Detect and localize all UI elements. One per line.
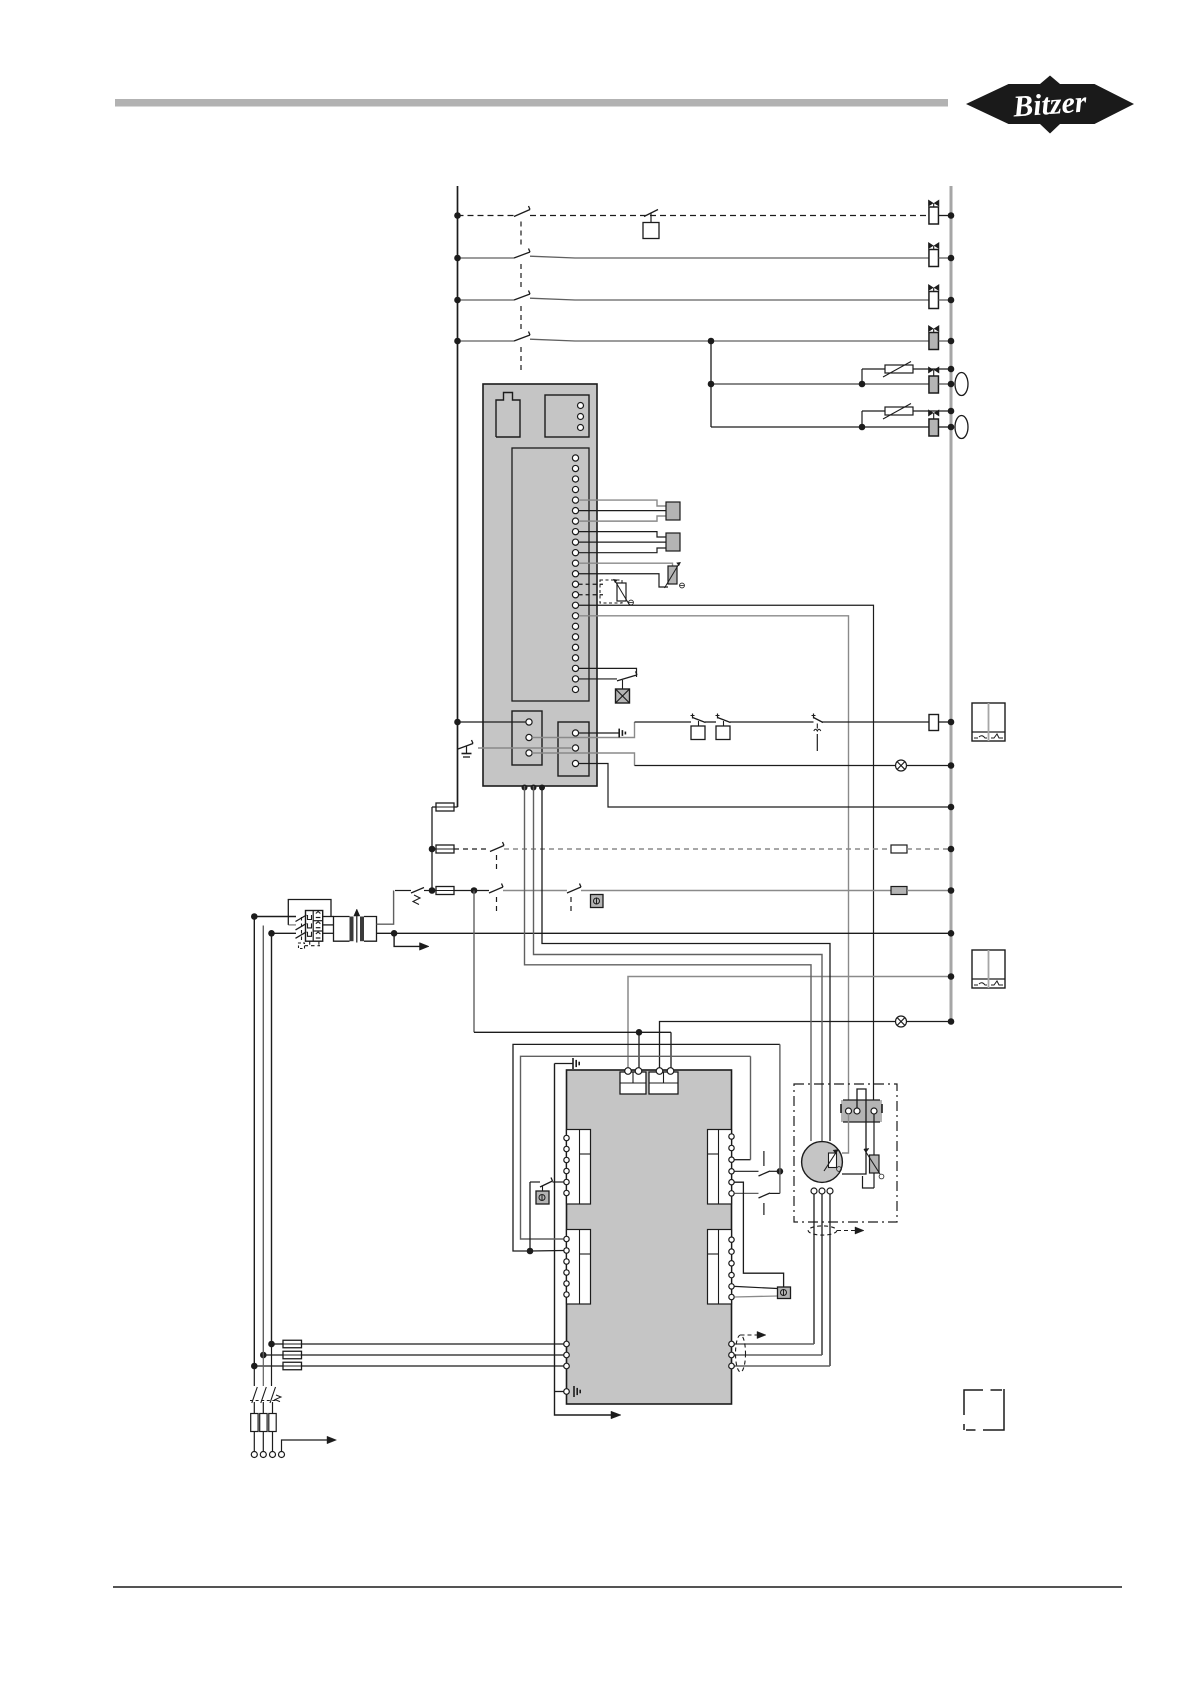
junction row722/rail bbox=[948, 719, 955, 726]
solenoid valve Y4 bbox=[929, 333, 939, 350]
module U1 relay box pins bbox=[578, 403, 584, 409]
inverter output pins bbox=[729, 1341, 735, 1347]
circuit breaker Q1 body bbox=[306, 911, 323, 942]
Bitzer logo bbox=[966, 76, 1134, 134]
module U1 output terminal box right bbox=[558, 722, 589, 776]
junction row890/rail bbox=[948, 887, 955, 894]
mains fuse F13 bbox=[283, 1362, 302, 1370]
wire pin9 to connector X2 bbox=[579, 541, 666, 543]
varistor R3 bbox=[885, 365, 913, 373]
switch S4 bbox=[514, 335, 530, 341]
varistor branch row B bbox=[861, 411, 863, 427]
wire terminal 14 to relay contact net bbox=[532, 722, 634, 738]
disconnect fuse f1 bbox=[251, 1414, 258, 1432]
wire pin14 dashed bbox=[579, 594, 603, 596]
wire row1 dashed bbox=[458, 215, 515, 217]
breaker thermal elements bbox=[316, 912, 321, 914]
inverter PE internal symbol bbox=[573, 1386, 575, 1397]
wire L1 to breaker bbox=[254, 916, 296, 918]
inverter terminal box B bbox=[567, 1230, 591, 1305]
fuse F8 bbox=[436, 845, 454, 853]
secondary tap to control row bbox=[377, 891, 394, 925]
junction row765/rail bbox=[948, 762, 955, 769]
junction L1 fuse bbox=[251, 1363, 258, 1370]
wire pin16 to motor terminal strip bbox=[579, 616, 849, 1108]
junction row2/rail bbox=[948, 255, 955, 262]
switch S3 bbox=[514, 294, 530, 300]
module pin24 wire to motor phase V bbox=[534, 786, 823, 1141]
wire row2 bbox=[458, 257, 515, 259]
supply vertical L1 bbox=[253, 917, 255, 1367]
junction row1022/rail bbox=[948, 1018, 955, 1025]
switch S9 row890 bbox=[489, 887, 503, 893]
secondary neutral wire row 933 bbox=[377, 932, 949, 934]
wire fuse F9 to inverter supply bbox=[473, 891, 475, 1033]
disconnect fuse f3 bbox=[269, 1414, 276, 1432]
wire between pressure switches bbox=[705, 721, 716, 723]
wire terminal M to lamp net bbox=[532, 753, 634, 766]
motor M1 circle bbox=[802, 1142, 843, 1183]
supply vertical L2 bbox=[262, 926, 264, 1356]
wire row4 bbox=[458, 340, 515, 342]
switch S2 bbox=[514, 252, 530, 258]
module U1 terminal field bbox=[512, 448, 589, 701]
module U1 relay box bbox=[545, 395, 589, 437]
wire to contact bbox=[730, 721, 814, 723]
module pin25 wire to motor phase U bbox=[525, 786, 812, 1141]
motor coil ellipse row A bbox=[955, 373, 968, 396]
contact linkage dashes bbox=[763, 1151, 765, 1166]
signal lamp H2 bbox=[896, 1016, 907, 1027]
breaker linkage bbox=[301, 917, 303, 943]
wire terminal B1 down to row 807 bbox=[579, 764, 948, 808]
inverter supply terminals 2 bbox=[656, 1068, 663, 1075]
inverter terminal box C bbox=[708, 1130, 732, 1205]
wire pin11 to sensor R5 bbox=[579, 563, 673, 566]
wire row 890 to oil switch bbox=[503, 890, 567, 892]
module bottom pins bbox=[522, 785, 528, 791]
contact K3 at C6 bbox=[735, 1192, 759, 1194]
inverter terminal box B pins bbox=[564, 1236, 569, 1241]
oil level monitor box B2 bbox=[972, 950, 1005, 988]
thermal cutout F10 bbox=[411, 888, 424, 894]
supply junction L2 bbox=[268, 930, 275, 937]
right neutral rail node N bbox=[950, 186, 953, 1022]
inverter terminal box D pins bbox=[729, 1237, 734, 1242]
inverter input pins bbox=[564, 1341, 570, 1347]
wire row A (y=384) bbox=[711, 383, 929, 385]
varistor branch row A bbox=[861, 369, 863, 384]
wire pin6 to connector X1 bbox=[579, 510, 666, 512]
breaker output wires bbox=[323, 916, 334, 918]
pressure switch F1 on row1 bbox=[644, 210, 658, 217]
wire row 849 dashed bbox=[454, 848, 490, 850]
output cable marker ellipse bbox=[736, 1335, 746, 1372]
LP switch F5 bbox=[717, 714, 719, 719]
inverter terminal box C pins bbox=[729, 1134, 734, 1139]
wire row 849 dashed to rail bbox=[504, 848, 891, 850]
disconnect thermal trip bbox=[275, 1395, 281, 1402]
main disconnect Q2 blades bbox=[253, 1366, 255, 1386]
inverter PE pin bbox=[564, 1389, 570, 1395]
discharge sensor R7 bbox=[873, 1114, 875, 1155]
wire pin12 to sensor R5 bbox=[579, 574, 668, 587]
wire A5 safety contact bbox=[553, 1181, 564, 1183]
alarm box H3 bbox=[616, 689, 630, 703]
relay coil K1 bbox=[929, 715, 939, 731]
svg-text:Bitzer: Bitzer bbox=[1011, 85, 1088, 123]
fuse F9 bbox=[436, 887, 454, 895]
footer rule bbox=[113, 1586, 1122, 1588]
solenoid valve Y2 bbox=[929, 250, 939, 267]
wire inverter control loop lower bbox=[521, 1056, 751, 1239]
wires fuses to inverter bbox=[302, 1343, 564, 1345]
wire to relay coil K1 bbox=[822, 721, 930, 723]
protection module U1 body bbox=[483, 384, 597, 786]
breaker linkage to columns bbox=[305, 945, 321, 947]
transformer T1 secondary frame bbox=[364, 917, 377, 942]
wires to supply terminals bbox=[253, 1402, 255, 1414]
reset switch S5 bbox=[617, 675, 637, 681]
wire C3 to B1 link bbox=[735, 1159, 751, 1161]
inverter PE top symbol bbox=[555, 1063, 573, 1065]
switch S8 row849 bbox=[490, 846, 504, 852]
module PE terminal wire bbox=[579, 732, 619, 734]
junction row849/rail bbox=[948, 846, 955, 853]
wire row3 bbox=[458, 299, 515, 301]
oil sensor box B3 bbox=[591, 895, 604, 908]
module PE earth symbol bbox=[618, 729, 620, 738]
breaker trip box bbox=[299, 943, 305, 949]
motor phase terminals bbox=[811, 1188, 817, 1194]
junction row3/rail bbox=[948, 297, 955, 304]
transformer core arrow bbox=[356, 916, 358, 943]
terminal marker row849 bbox=[891, 845, 907, 853]
accessory dashed square bbox=[964, 1389, 1004, 1430]
motor winding jumper bbox=[842, 1089, 866, 1174]
junction L2 fuse bbox=[260, 1352, 267, 1359]
connector X1 bbox=[666, 502, 680, 520]
supply terminals L1 L2 L3 PE bbox=[251, 1452, 257, 1458]
left control rail node L bbox=[457, 186, 459, 807]
motor internal sensor bbox=[829, 1153, 837, 1168]
solenoid valve Y5 (CR) bbox=[929, 376, 939, 393]
wire branch from row4 to valve rows bbox=[710, 341, 712, 427]
wire transformer to fuse F9 bbox=[395, 890, 411, 892]
inverter terminal box A bbox=[567, 1130, 591, 1205]
wire terminal 12 to test switch bbox=[478, 747, 572, 749]
motor terminal circles bbox=[846, 1108, 852, 1114]
header rule bar bbox=[115, 99, 948, 107]
junctions row A / rail bbox=[948, 366, 955, 373]
inverter supply terminal block 1 bbox=[620, 1072, 646, 1094]
fuse F7 bbox=[436, 803, 454, 811]
wire PE pin to PE bus bbox=[555, 1391, 564, 1393]
breaker blades bbox=[296, 915, 307, 922]
oil level monitor box B1 bbox=[972, 703, 1005, 741]
transformer T1 secondary winding bbox=[360, 917, 364, 942]
wire inverter control loop upper bbox=[513, 1044, 780, 1251]
motor coil ellipse row B bbox=[955, 416, 968, 439]
wire A5 contact to B2 bbox=[529, 1182, 531, 1251]
junction row933/rail bbox=[948, 930, 955, 937]
inverter supply terminal block 2 bbox=[649, 1072, 678, 1094]
solenoid valve Y1 bbox=[929, 207, 939, 224]
motor cable arrow bbox=[837, 1230, 855, 1232]
wire L-rail to terminal 11 bbox=[458, 721, 527, 723]
wire D6 to sensor B5 bbox=[735, 1296, 778, 1297]
wire pin22 to reset switch bbox=[579, 678, 617, 680]
motor terminal strip bbox=[841, 1100, 882, 1122]
motor phase wires to inverter bbox=[813, 1194, 815, 1344]
manual contact S7 bbox=[813, 714, 815, 719]
wire row 976 rail feed bbox=[628, 977, 948, 1071]
wire inverter T3 to lamp H2 bbox=[660, 1022, 896, 1071]
junction secondary neutral bbox=[391, 930, 398, 937]
test switch S6 with earth bbox=[458, 744, 473, 750]
wire row B (y=427) bbox=[711, 426, 929, 428]
wire row 765 signal lamp bbox=[635, 765, 896, 767]
wire inverter supply T2/T4 bbox=[474, 1031, 671, 1033]
motor feed from strip 1 bbox=[842, 1114, 849, 1153]
wire row 722 safety chain bbox=[635, 721, 692, 723]
oil level switch S10 bbox=[567, 887, 581, 893]
wire pin8 to connector X2 bbox=[579, 532, 666, 537]
solenoid valve Y3 bbox=[929, 292, 939, 309]
wire pin10 to connector X2 bbox=[579, 548, 666, 553]
module U1 power plug outline bbox=[496, 393, 520, 438]
wire pin7 to connector X1 bbox=[579, 516, 666, 521]
junction row4/rail bbox=[948, 338, 955, 345]
wire row 890 to rail bbox=[581, 890, 891, 892]
switch S1 bbox=[514, 210, 530, 217]
mains fuse F12 bbox=[283, 1351, 302, 1359]
connector X2 bbox=[666, 533, 680, 551]
wire D5 to sensor B5 bbox=[735, 1286, 778, 1288]
disconnect linkage bbox=[250, 1400, 276, 1402]
wire lamp H2 to rail end bbox=[907, 1021, 952, 1023]
wire pin13 dashed bbox=[579, 583, 603, 585]
PE supply arrow bbox=[282, 1440, 328, 1452]
contact K2 at C4 bbox=[735, 1170, 759, 1172]
supply vertical L3 bbox=[271, 933, 273, 1344]
wire contact bus bbox=[779, 1044, 781, 1193]
wire C5 to sensor B5 bbox=[735, 1182, 784, 1287]
mains fuse F11 bbox=[283, 1340, 302, 1348]
junction L3 fuse bbox=[268, 1341, 275, 1348]
compressor boundary dash-dot box bbox=[794, 1084, 897, 1222]
motor cable marker ellipse bbox=[808, 1226, 837, 1235]
vertical fuse feeder bbox=[431, 807, 433, 891]
transformer T1 primary frame bbox=[334, 917, 350, 942]
wire L2 to breaker bbox=[272, 932, 297, 934]
wire pin21 to reset switch bbox=[579, 668, 637, 677]
terminal marker row890 bbox=[891, 887, 907, 895]
inverter terminal box D bbox=[708, 1230, 732, 1305]
sensor box B5 bbox=[778, 1287, 791, 1299]
junction row807/rail bbox=[948, 804, 955, 811]
discharge gas sensor R5 bbox=[668, 566, 677, 584]
inverter supply terminals bbox=[625, 1068, 632, 1075]
sensor box B4 at contact bbox=[542, 1186, 544, 1191]
junction row976/rail bbox=[948, 973, 955, 980]
varistor R4 bbox=[885, 407, 913, 415]
junction fuse F9 out bbox=[471, 887, 478, 894]
wire pin15 to motor terminal strip bbox=[579, 605, 874, 1108]
output cable arrow bbox=[741, 1334, 758, 1336]
signal lamp H1 bbox=[896, 760, 907, 771]
solenoid valve Y6 (CR) bbox=[929, 419, 939, 436]
module pin23 wire to motor phase W bbox=[542, 786, 830, 1141]
wire lamp to rail bbox=[907, 765, 952, 767]
junctions row B / rail bbox=[948, 408, 955, 415]
supply junction L1 bbox=[251, 913, 258, 920]
disconnect fuse f2 bbox=[260, 1414, 267, 1432]
breaker contact notches bbox=[308, 915, 312, 920]
module U1 terminal pins 1-23 bbox=[572, 455, 578, 461]
frequency inverter U2 body bbox=[567, 1070, 732, 1404]
module U1 output terminal box left bbox=[512, 711, 542, 765]
neutral branch arrow bbox=[394, 933, 419, 946]
inverter terminal box A pins bbox=[564, 1135, 569, 1140]
optional sensor R6 bbox=[617, 583, 626, 601]
junction row1/rail bbox=[948, 212, 955, 219]
transformer T1 primary winding bbox=[350, 917, 354, 942]
inverter PE bus wire bbox=[555, 1064, 612, 1416]
inverter output wires bbox=[735, 1343, 815, 1345]
dashed option box bbox=[600, 580, 622, 603]
wire pin5 to connector X1 bbox=[579, 500, 666, 506]
HP switch F4 bbox=[692, 714, 694, 719]
breaker series loop wire bbox=[288, 924, 296, 926]
